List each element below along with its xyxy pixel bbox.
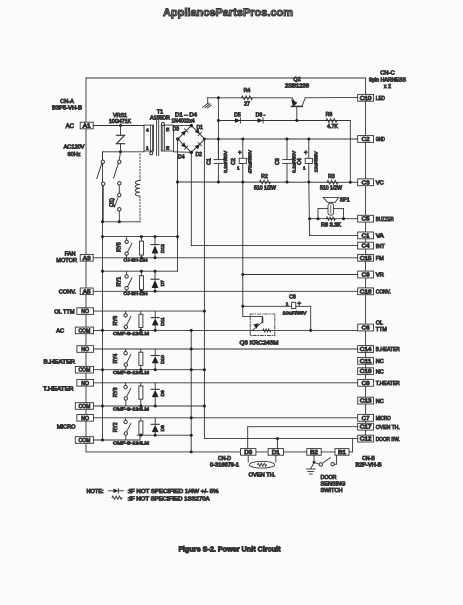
connector pin B2 xyxy=(307,449,321,456)
wire C4 column down to VA corner xyxy=(308,182,311,235)
wire MICRO NO line to C7 connector xyxy=(93,417,358,419)
diode D7 flyback xyxy=(154,271,156,279)
node C1 column top junction xyxy=(217,96,220,99)
connector pin A5 xyxy=(80,288,93,295)
svg-text:C5: C5 xyxy=(362,217,370,223)
wire D5 D6 R6 line xyxy=(218,120,350,122)
svg-text:E: E xyxy=(166,146,169,152)
wire transformer pin 1 line with corner to AC bus xyxy=(103,151,145,153)
connector pin C3 VC xyxy=(358,179,374,186)
door sensing switch xyxy=(313,455,315,462)
transistor Q2 2SB1238 xyxy=(292,105,303,107)
connector pin C12 DOOR SW. xyxy=(358,435,374,442)
wire RY4 COM line to bus xyxy=(93,369,205,371)
svg-text:OMF-S-124LM: OMF-S-124LM xyxy=(113,440,149,446)
node D5 line left junction xyxy=(217,119,220,122)
wire CONV line A5 to C16 xyxy=(93,290,358,292)
wire C8 down to TTM line xyxy=(310,306,312,330)
diode D6 xyxy=(258,118,264,123)
wire CN-A left connector strip vertical xyxy=(85,78,87,452)
wire AC bus vertical x=103 xyxy=(102,152,104,440)
diode D10 flyback xyxy=(154,349,156,356)
connector pin D1 xyxy=(268,449,283,456)
svg-text:C15: C15 xyxy=(360,256,372,262)
svg-text:C3: C3 xyxy=(275,158,281,165)
svg-text:INT: INT xyxy=(376,244,386,250)
svg-text:NO: NO xyxy=(81,381,89,387)
svg-text:C11: C11 xyxy=(360,359,372,365)
relay RY4 contact xyxy=(125,349,127,351)
transformer T1 A155DR xyxy=(144,125,154,151)
wire OL TTM NO line to AC bus x204 xyxy=(94,310,205,312)
svg-text:AC120V: AC120V xyxy=(64,145,85,151)
wire DOOR SW line from C12 xyxy=(204,438,357,440)
node RY2 bottom rail xyxy=(190,434,193,437)
wire C1 column from top rail to filter rail xyxy=(217,98,219,159)
wire AC distribution bus x=204 from bridge right vertex down to DOOR SW corner xyxy=(203,139,205,439)
mechanical link dotted line with relay coil xyxy=(139,154,141,181)
svg-text:CONV.: CONV. xyxy=(59,290,77,296)
svg-text:4.7K: 4.7K xyxy=(327,124,338,130)
svg-text:A1: A1 xyxy=(83,124,91,130)
wire bridge bottom vertex down to INT corner xyxy=(190,153,192,246)
capacitor C4 xyxy=(308,139,310,158)
relay RY1 contact xyxy=(126,271,128,274)
diode D5 xyxy=(235,118,241,123)
svg-text:C8: C8 xyxy=(362,381,370,387)
relay RY6 coil xyxy=(140,311,142,314)
wire VA line to C1 connector xyxy=(310,234,358,236)
speaker SP1 horn xyxy=(323,197,338,202)
svg-text:D10: D10 xyxy=(160,355,166,364)
svg-text:B.HEATER: B.HEATER xyxy=(376,347,400,353)
connector pin NO RY6 xyxy=(77,308,94,315)
diode D12 flyback xyxy=(154,237,156,245)
svg-text:NO: NO xyxy=(81,416,89,422)
svg-text:OJ-SH-124: OJ-SH-124 xyxy=(124,291,148,297)
svg-text:B2P-VH-B: B2P-VH-B xyxy=(356,462,383,468)
node C8 branch junction xyxy=(241,305,244,308)
node C8 to TTM junction xyxy=(309,329,312,332)
node Q2 base junction xyxy=(295,119,298,122)
svg-text:D3: D3 xyxy=(173,127,180,133)
diode D2 lower-right arm xyxy=(195,143,202,150)
svg-text:(J1): (J1) xyxy=(110,198,116,207)
svg-text:510 1/2W: 510 1/2W xyxy=(320,186,342,192)
connector pin B1 xyxy=(335,449,349,456)
transistor Q3 KRC243M dashed box xyxy=(250,314,275,336)
connector pin C5 BUZZER xyxy=(358,215,374,222)
svg-text:C16: C16 xyxy=(360,289,372,295)
wire secondary E bottom to bridge xyxy=(174,151,192,154)
svg-text:10uF/35V: 10uF/35V xyxy=(313,151,319,173)
resistor R8 xyxy=(326,217,335,220)
svg-text:D9: D9 xyxy=(160,390,166,396)
Q3 collector resistor xyxy=(263,329,271,332)
node RY5 rail on DC- bus xyxy=(176,235,179,238)
connector pin A3 xyxy=(80,255,93,262)
node RY2 rail mid-bus xyxy=(190,416,193,419)
svg-text:LED: LED xyxy=(376,96,385,102)
svg-text:COM: COM xyxy=(79,404,91,410)
svg-text:D12: D12 xyxy=(160,244,166,253)
node switch bottom right xyxy=(118,220,121,223)
wire OVEN TH line from C17 xyxy=(248,426,358,428)
varistor VRS1 xyxy=(120,126,122,136)
resistor R4 xyxy=(242,96,253,100)
svg-text:R3: R3 xyxy=(328,174,335,180)
svg-text:D7: D7 xyxy=(160,280,166,286)
relay RY5 coil xyxy=(140,237,142,242)
relay RY6 contact xyxy=(125,311,127,313)
node VRS1 bottom junction xyxy=(119,150,122,153)
svg-text:+: + xyxy=(238,150,242,156)
connector pin C11 NC xyxy=(358,357,374,364)
svg-text:R6: R6 xyxy=(326,112,333,118)
svg-text:MOTOR: MOTOR xyxy=(56,258,77,264)
winding sense circle top right xyxy=(161,122,164,125)
svg-text:A5: A5 xyxy=(83,289,91,295)
svg-text::IF NOT SPECIFIED 1/4W +/- 5%: :IF NOT SPECIFIED 1/4W +/- 5% xyxy=(128,489,219,495)
wire RY3 COM line to bus xyxy=(93,405,205,407)
note resistor symbol xyxy=(112,496,122,499)
svg-text:GND: GND xyxy=(376,137,385,143)
svg-text:C17: C17 xyxy=(360,425,372,431)
wire GND rail bridge to C2 connector xyxy=(205,138,358,140)
svg-text:TTM: TTM xyxy=(376,327,388,333)
capacitor C3 xyxy=(286,139,288,160)
svg-text:T.HEATER: T.HEATER xyxy=(376,381,400,387)
svg-text:CN-B: CN-B xyxy=(362,456,375,462)
connector pin C2 GND xyxy=(358,136,374,143)
connector pin C4 INT xyxy=(358,242,374,249)
relay RY1 coil xyxy=(140,271,142,276)
svg-text:Figure S-2. Power Unit Circuit: Figure S-2. Power Unit Circuit xyxy=(179,545,282,554)
svg-text:D1: D1 xyxy=(197,125,204,131)
svg-text:NC: NC xyxy=(376,399,384,405)
wire top frame rail from CN-A side to CN-C strip xyxy=(86,77,366,79)
node bridge top vertex xyxy=(190,124,193,127)
wire top rail ground to Q2 base xyxy=(208,97,292,99)
svg-text:D1 – D4: D1 – D4 xyxy=(175,113,197,119)
svg-text:0.1uF/50V: 0.1uF/50V xyxy=(223,150,229,173)
buzzer bracket wires xyxy=(318,208,328,210)
diode bridge D1-D4 1N4002x4 diamond xyxy=(178,126,205,153)
node RY4 COM mid-bus xyxy=(190,368,193,371)
node D1 riser junction xyxy=(276,437,279,440)
wire R6 drop to VC line xyxy=(349,121,351,183)
svg-text:B3P5-VH-B: B3P5-VH-B xyxy=(52,106,83,112)
svg-text:COM: COM xyxy=(79,328,91,334)
node VR tap on C2 column xyxy=(241,273,244,276)
svg-text:OVEN TH.: OVEN TH. xyxy=(249,472,276,478)
node NO line end on bus xyxy=(203,310,206,313)
svg-text:NO: NO xyxy=(81,309,89,315)
svg-text:CN-D: CN-D xyxy=(218,456,231,462)
svg-text:OMF-S-124LM: OMF-S-124LM xyxy=(113,406,149,412)
svg-text:NO: NO xyxy=(81,347,89,353)
svg-text:VRS1: VRS1 xyxy=(113,113,127,119)
relay RY1 rail xyxy=(103,270,178,272)
diode D11 flyback xyxy=(154,311,156,318)
svg-text:OVEN TH.: OVEN TH. xyxy=(376,425,400,431)
svg-text:1: 1 xyxy=(146,145,149,151)
wire VR line to C9 xyxy=(243,274,358,276)
svg-text::IF NOT SPECIFIED 1SS270A: :IF NOT SPECIFIED 1SS270A xyxy=(128,496,210,502)
diode D1 upper-right arm xyxy=(195,129,202,136)
svg-text:DOOR SW.: DOOR SW. xyxy=(376,437,400,443)
node RY5 rail on AC bus xyxy=(101,235,104,238)
svg-text:1: 1 xyxy=(237,166,240,171)
relay RY4 coil xyxy=(140,349,142,352)
svg-text:A155DR: A155DR xyxy=(150,116,170,122)
svg-text:C7: C7 xyxy=(362,416,370,422)
wire INT line to C4 connector xyxy=(191,245,357,247)
svg-text:RY1: RY1 xyxy=(116,277,122,287)
node junction CN-D line with RY2 drop xyxy=(190,450,193,453)
connector pin C16 CONV. xyxy=(358,288,374,295)
wire DC- bus from bridge left vertex down to RY1 rail xyxy=(177,139,179,271)
svg-text:C2: C2 xyxy=(362,137,370,143)
ground symbol top xyxy=(207,98,209,104)
svg-text:2SB1238: 2SB1238 xyxy=(285,83,309,89)
connector pin C14 B.HEATER xyxy=(358,346,374,353)
Q3 bar xyxy=(262,317,264,319)
thermostat OVEN TH oval xyxy=(249,461,274,468)
node buzzer tap xyxy=(308,217,311,220)
relay RY5 rail xyxy=(103,236,178,238)
connector pin D3 xyxy=(241,449,256,456)
svg-text:C12: C12 xyxy=(360,437,372,443)
node bridge left vertex xyxy=(176,137,179,140)
svg-text:OL: OL xyxy=(376,321,383,327)
connector pin C8 T.HEATER xyxy=(358,379,374,386)
resistor R6 xyxy=(326,119,337,123)
svg-text:E: E xyxy=(166,127,169,133)
wire OVEN TH drop to D3 xyxy=(247,427,249,449)
capacitor C2 xyxy=(242,139,244,158)
svg-text:C13: C13 xyxy=(360,399,372,405)
svg-text:T1: T1 xyxy=(157,110,163,116)
capacitor C1 xyxy=(217,139,219,160)
wire mid bus from COM line down to CN-D line xyxy=(190,330,192,452)
connector pin A1 xyxy=(80,122,93,129)
wire Q2 base down to D6 line xyxy=(296,106,298,120)
connector pin COM RY4 xyxy=(75,366,93,373)
node R6 drop to VC junction xyxy=(349,181,352,184)
svg-text:9pin HARNESS: 9pin HARNESS xyxy=(369,77,407,83)
svg-text:CONV.: CONV. xyxy=(376,290,391,296)
Q3 emitter diagonal with arrow xyxy=(253,322,262,330)
buzzer piezo element xyxy=(328,203,334,215)
svg-text:x 2: x 2 xyxy=(384,84,391,90)
node COM line on AC bus xyxy=(101,329,104,332)
svg-text:SWITCH: SWITCH xyxy=(321,488,343,494)
node RY1 rail on AC bus xyxy=(101,270,104,273)
svg-text:R8 3.3K: R8 3.3K xyxy=(321,222,342,228)
switch primary interlock contact 1 xyxy=(102,152,104,160)
svg-text:B.HEATER: B.HEATER xyxy=(44,359,76,365)
wire Q2 emitter to C10 LED xyxy=(305,96,358,98)
svg-text:Q2: Q2 xyxy=(293,77,300,83)
svg-text:A3: A3 xyxy=(83,256,91,262)
node bridge bottom vertex xyxy=(190,151,193,154)
svg-text:1: 1 xyxy=(286,301,289,306)
connector pin C1 VA xyxy=(358,232,374,239)
svg-text:60Hz: 60Hz xyxy=(67,152,80,158)
svg-text:10uF/35V: 10uF/35V xyxy=(283,310,308,316)
svg-text:D4: D4 xyxy=(178,155,185,161)
switch monitor contact 2b (J1) xyxy=(118,185,120,193)
svg-text:C4: C4 xyxy=(297,158,303,165)
connector pin COM RY6 xyxy=(75,327,93,334)
svg-text:RY4: RY4 xyxy=(113,353,119,363)
note diode symbol xyxy=(109,490,114,492)
svg-text:SENSING: SENSING xyxy=(321,481,346,487)
svg-text:C3: C3 xyxy=(362,180,370,186)
wire RY2 coil bottom rail xyxy=(137,434,191,436)
wire CN-D bottom line to D3 D1 B2 B1 xyxy=(86,451,349,453)
resistor R2 xyxy=(260,180,271,184)
node switch bottom left xyxy=(101,220,104,223)
svg-text:D2: D2 xyxy=(196,152,203,158)
node RY4 COM end xyxy=(203,368,206,371)
winding terminal circle bottom left xyxy=(150,152,153,155)
wire COM AC line through Q3 to C6 TTM xyxy=(93,329,358,331)
connector pin C7 MICRO xyxy=(358,414,374,421)
svg-text:COM: COM xyxy=(79,438,91,444)
wire T.HEATER NO line to C8 connector xyxy=(93,382,358,384)
svg-text:OJ-SH-124: OJ-SH-124 xyxy=(124,258,148,264)
wire D3 stub to oven th oval xyxy=(247,455,249,462)
svg-text:C8: C8 xyxy=(289,294,296,300)
svg-text:C6: C6 xyxy=(362,326,370,332)
wire B.HEATER NO line to C14 xyxy=(93,348,357,350)
svg-text:D8: D8 xyxy=(160,425,166,431)
svg-text:C9: C9 xyxy=(362,273,370,279)
ground symbol door switch xyxy=(306,468,315,470)
svg-text:RY2: RY2 xyxy=(113,422,119,432)
relay RY3 coil xyxy=(140,383,142,386)
node bridge right vertex xyxy=(203,138,206,141)
svg-text:0-316879-1: 0-316879-1 xyxy=(210,462,239,468)
svg-text:Q3 KRC243M: Q3 KRC243M xyxy=(240,341,279,347)
svg-text:NC: NC xyxy=(376,369,384,375)
node VRS1 top junction xyxy=(119,124,122,127)
connector pin C15 FM xyxy=(358,254,374,261)
node RY4 rail mid-bus xyxy=(190,348,193,351)
svg-text:C4: C4 xyxy=(362,244,370,250)
relay RY2 coil xyxy=(140,418,142,421)
wire CN-C connector strip vertical bus xyxy=(365,78,367,439)
connector pin C10 LED xyxy=(358,94,374,101)
switch secondary interlock contact 2a xyxy=(119,152,120,160)
svg-text:RY3: RY3 xyxy=(113,387,119,397)
wire VC bottom rail xyxy=(178,181,358,183)
connector pin COM RY3 xyxy=(75,403,93,410)
svg-text:NOTE:: NOTE: xyxy=(87,489,104,495)
node bracket left xyxy=(317,217,320,220)
svg-text:R2: R2 xyxy=(261,174,268,180)
svg-text:27: 27 xyxy=(244,101,250,107)
svg-text:10G471K: 10G471K xyxy=(109,119,132,125)
svg-text:B1: B1 xyxy=(338,450,346,456)
wire B1 riser to DOOR SW line xyxy=(349,451,353,453)
wire C8 branch from C2 column xyxy=(243,305,292,307)
svg-text:510 1/2W: 510 1/2W xyxy=(254,186,276,192)
svg-text:COM: COM xyxy=(79,368,91,374)
svg-text:C14: C14 xyxy=(360,347,372,353)
svg-text:OL TTM: OL TTM xyxy=(54,309,75,315)
svg-text:D11: D11 xyxy=(160,317,166,326)
svg-text:AC: AC xyxy=(66,124,75,130)
diode D8 flyback xyxy=(154,418,156,425)
svg-text:MICRO: MICRO xyxy=(57,424,76,430)
capacitor C8 xyxy=(292,302,296,308)
svg-text:+: + xyxy=(304,150,308,156)
wire switch bottoms join xyxy=(103,221,141,223)
wire RY2 COM wire xyxy=(93,439,140,441)
svg-text:C1: C1 xyxy=(206,158,212,165)
node bottom rail left junction xyxy=(176,181,179,184)
relay RY3 contact xyxy=(125,383,127,385)
diode D9 flyback xyxy=(154,383,156,390)
diode D4 lower-left arm xyxy=(181,142,188,149)
connector pin C18 NC xyxy=(358,368,374,375)
svg-text:FAN: FAN xyxy=(65,251,76,257)
svg-text:FM: FM xyxy=(376,256,385,262)
svg-text:C18: C18 xyxy=(360,369,372,375)
svg-text:4: 4 xyxy=(146,128,149,134)
svg-text:D5: D5 xyxy=(234,112,241,118)
svg-text:R4: R4 xyxy=(244,88,251,94)
svg-text:RY6: RY6 xyxy=(113,316,119,326)
connector pin NO RY2 xyxy=(77,415,94,422)
svg-text:D6 -: D6 - xyxy=(256,112,266,118)
svg-text:SP1: SP1 xyxy=(340,197,350,203)
connector pin NO RY3 xyxy=(77,380,94,387)
wire D1 stub to oven th oval xyxy=(275,455,277,462)
svg-text:VR: VR xyxy=(376,273,384,279)
wire D1 riser xyxy=(277,439,279,449)
connector pin C13 NC xyxy=(358,397,374,404)
node bracket right xyxy=(342,217,345,220)
svg-text:OMF-S-124LM: OMF-S-124LM xyxy=(113,331,149,337)
svg-text:AC: AC xyxy=(56,329,64,335)
svg-text:470uF/50V: 470uF/50V xyxy=(247,149,253,173)
svg-text:VC: VC xyxy=(376,181,384,187)
node RY2 COM on AC bus xyxy=(101,439,104,442)
svg-text:DOOR: DOOR xyxy=(321,475,337,481)
relay RY2 contact xyxy=(125,418,127,420)
svg-text:MICRO: MICRO xyxy=(376,416,391,422)
node RY4 COM on AC bus xyxy=(101,368,104,371)
wire FM line A3 to C15 xyxy=(93,257,358,259)
connector pin C17 OVEN TH. xyxy=(358,423,374,430)
svg-text:1N4002x4: 1N4002x4 xyxy=(172,119,195,125)
connector pin NO RY4 xyxy=(77,346,94,353)
svg-text:C1: C1 xyxy=(362,233,370,239)
node RY3 COM end xyxy=(203,405,206,408)
connector pin C9 VR xyxy=(358,271,374,278)
svg-text:BUZZER: BUZZER xyxy=(376,217,394,223)
connector pin C6 TTM2 xyxy=(358,324,374,331)
wire A1 to VRS1 to transformer pin 4 xyxy=(93,125,144,127)
svg-text:AppliancePartsPros.com: AppliancePartsPros.com xyxy=(163,7,293,19)
coil of power relay on link xyxy=(135,181,140,197)
svg-text:RY5: RY5 xyxy=(116,242,122,252)
svg-text:VA: VA xyxy=(376,234,384,240)
